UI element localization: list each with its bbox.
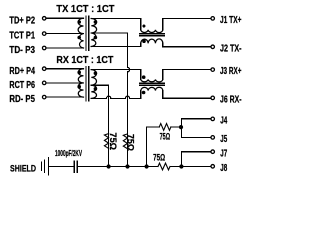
choke L-TX bottom winding xyxy=(141,39,163,43)
svg-text:J7: J7 xyxy=(220,148,227,159)
junction dot J4/J5 xyxy=(179,125,183,129)
svg-text:J5: J5 xyxy=(220,134,227,145)
svg-text:75Ω: 75Ω xyxy=(108,133,118,151)
node J6 terminal xyxy=(211,96,215,100)
node TCT P1 terminal xyxy=(42,32,46,36)
wire TX secondary tap xyxy=(91,33,127,67)
choke L-RX core xyxy=(140,83,165,85)
dot T-TX pri top xyxy=(77,20,81,24)
wire RCT to transformer tap xyxy=(46,82,83,84)
wire resistor to J8 xyxy=(171,166,211,168)
dot T-TX sec top xyxy=(94,20,98,24)
node TD- P3 terminal xyxy=(42,46,46,50)
svg-text:TD+ P2: TD+ P2 xyxy=(9,15,35,26)
ground (chassis) symbol xyxy=(42,158,49,175)
node J7 terminal xyxy=(211,150,215,154)
choke L-TX top winding xyxy=(141,30,163,33)
dot L-TX top (diamond) xyxy=(142,24,146,28)
wire RD+ to transformer xyxy=(46,68,83,70)
svg-text:RCT P6: RCT P6 xyxy=(9,80,35,91)
svg-text:J4: J4 xyxy=(220,116,227,127)
dot L-RX bottom xyxy=(142,91,146,95)
wire to J4 xyxy=(181,119,210,138)
node TD+ P2 terminal xyxy=(42,17,46,21)
transformer T-TX core xyxy=(86,16,89,50)
svg-text:TX 1CT : 1CT: TX 1CT : 1CT xyxy=(56,3,115,15)
svg-text:TCT P1: TCT P1 xyxy=(9,31,35,42)
svg-text:1000pF/2KV: 1000pF/2KV xyxy=(55,148,82,158)
dot L-TX bottom xyxy=(142,39,146,43)
node J4 terminal xyxy=(211,117,215,121)
transformer T-TX primary winding xyxy=(78,18,83,48)
wire branch up to upper resistor xyxy=(147,127,160,167)
wire resistor to J4/J5 junction xyxy=(171,126,182,128)
node J1 terminal xyxy=(211,17,215,21)
node RCT P6 terminal xyxy=(42,81,46,85)
resistor R2 75ohm (upper) xyxy=(159,124,171,131)
svg-text:75Ω: 75Ω xyxy=(160,131,171,141)
svg-text:RD+ P4: RD+ P4 xyxy=(9,66,35,77)
dot T-RX pri top xyxy=(77,71,81,75)
node J3 terminal xyxy=(211,68,215,72)
svg-text:J8: J8 xyxy=(220,163,227,174)
wire TD- to transformer xyxy=(46,47,83,49)
transformer T-RX core xyxy=(86,66,89,100)
wire to J5 xyxy=(181,136,210,138)
node RD+ P4 terminal xyxy=(42,67,46,71)
svg-text:RX 1CT : 1CT: RX 1CT : 1CT xyxy=(56,54,113,66)
wire to J7 xyxy=(181,152,210,167)
wire TX tap hop over RX top wire xyxy=(128,67,130,166)
wire choke to J3 xyxy=(163,70,211,80)
resistor R1 75ohm (vertical left, RX tap) xyxy=(104,134,108,149)
junction dot at RX tap / bottom node xyxy=(107,164,111,168)
wire TD+ to transformer xyxy=(46,17,83,19)
svg-text:TD- P3: TD- P3 xyxy=(9,45,35,56)
svg-text:J1 TX+: J1 TX+ xyxy=(220,15,242,26)
transformer T-RX secondary winding xyxy=(91,70,96,99)
junction dot at TX tap / bottom node xyxy=(125,164,129,168)
svg-text:J3 RX+: J3 RX+ xyxy=(220,66,242,77)
svg-text:RD- P5: RD- P5 xyxy=(9,94,35,105)
svg-text:J2 TX-: J2 TX- xyxy=(220,43,242,54)
wire TX secondary top to choke xyxy=(91,19,141,30)
dot T-RX sec bottom xyxy=(94,87,98,91)
wire choke to J6 xyxy=(163,91,211,99)
node J8 terminal xyxy=(211,165,215,169)
junction dot at upper resistor branch xyxy=(145,164,149,168)
wire RX secondary bottom with hops xyxy=(91,91,141,99)
wire choke to J2 xyxy=(163,43,211,46)
choke L-TX core xyxy=(140,34,165,36)
wire shield to capacitor xyxy=(48,166,74,168)
dot T-RX sec top xyxy=(94,71,98,75)
wire choke to J1 xyxy=(163,19,211,30)
choke L-RX top winding xyxy=(141,79,163,81)
node RD- P5 terminal xyxy=(42,95,46,99)
dot T-RX pri bottom xyxy=(77,85,81,89)
dot T-TX sec bottom xyxy=(94,36,98,40)
capacitor C1 1000pF/2KV plates xyxy=(74,161,77,172)
wire capacitor to node xyxy=(77,166,158,168)
transformer T-TX secondary winding xyxy=(91,19,96,47)
wire TCT to transformer tap xyxy=(46,33,83,35)
resistor R3 75ohm (lower, inline) xyxy=(158,163,170,170)
transformer T-RX primary winding xyxy=(78,69,83,97)
svg-text:75Ω: 75Ω xyxy=(126,134,136,151)
node J5 terminal xyxy=(211,136,215,140)
wire RX secondary top to choke xyxy=(91,70,141,80)
choke L-RX bottom winding xyxy=(141,87,163,90)
svg-text:J6 RX-: J6 RX- xyxy=(220,95,242,106)
dot L-RX top xyxy=(142,75,146,79)
svg-text:75Ω: 75Ω xyxy=(153,153,165,163)
dot T-TX pri bottom xyxy=(77,36,81,40)
resistor R4 75ohm (vertical right, TX tap) xyxy=(123,134,127,149)
node J2 terminal xyxy=(211,45,215,49)
svg-text:SHIELD: SHIELD xyxy=(10,163,36,174)
wire RD- to transformer xyxy=(46,96,83,98)
junction dot at J7/J8 branch xyxy=(179,164,183,168)
wire TX secondary bottom to choke xyxy=(91,43,141,46)
wire RX secondary tap xyxy=(91,85,108,166)
